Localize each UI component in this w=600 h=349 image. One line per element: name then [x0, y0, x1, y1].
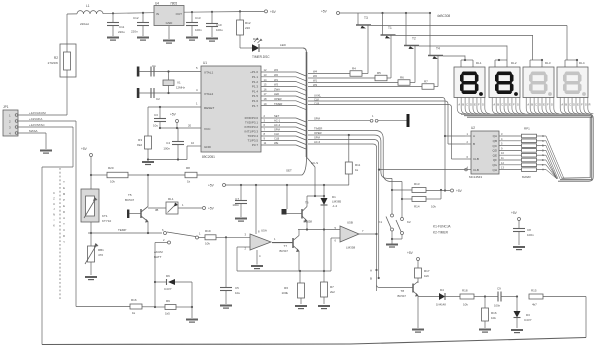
svg-text:R: R — [63, 210, 65, 214]
svg-text:+5V: +5V — [270, 10, 277, 14]
svg-text:A: A — [493, 102, 495, 106]
svg-text:DL3: DL3 — [545, 61, 551, 65]
svg-text:R6: R6 — [284, 286, 288, 290]
svg-text:JP1: JP1 — [3, 105, 9, 109]
svg-text:1k6: 1k6 — [424, 274, 429, 278]
svg-text:D4: D4 — [440, 288, 444, 292]
svg-text:W4: W4 — [274, 68, 279, 72]
svg-text:8k2: 8k2 — [137, 143, 142, 147]
svg-text:+5V: +5V — [170, 113, 177, 117]
svg-text:10k: 10k — [110, 180, 115, 184]
svg-text:AC-1: AC-1 — [274, 119, 281, 123]
svg-text:+5V: +5V — [321, 10, 328, 14]
svg-text:D: D — [505, 102, 507, 106]
svg-text:T: T — [63, 222, 65, 226]
svg-text:DL2: DL2 — [511, 61, 517, 65]
svg-text:G: G — [551, 102, 553, 106]
svg-text:D6: D6 — [166, 274, 170, 278]
svg-text:KT1: KT1 — [102, 214, 108, 218]
svg-text:C10: C10 — [216, 23, 222, 27]
svg-text:100u: 100u — [216, 28, 223, 32]
svg-text:RXD/P3.0: RXD/P3.0 — [245, 116, 259, 120]
svg-text:T1: T1 — [388, 26, 392, 30]
svg-text:R7: R7 — [424, 80, 428, 84]
svg-text:G: G — [482, 102, 484, 106]
svg-text:14: 14 — [264, 78, 267, 82]
svg-text:R14: R14 — [414, 205, 420, 209]
svg-text:220uH: 220uH — [80, 22, 89, 26]
svg-text:DL1: DL1 — [476, 61, 482, 65]
svg-text:A: A — [473, 134, 475, 138]
svg-text:A: A — [458, 102, 460, 106]
svg-text:RP1: RP1 — [524, 127, 530, 131]
svg-text:SPM: SPM — [314, 117, 321, 121]
svg-text:VCC: VCC — [204, 127, 211, 131]
svg-text:K1-FUNCJA: K1-FUNCJA — [433, 225, 451, 229]
svg-text:T1/P3.5: T1/P3.5 — [247, 139, 258, 143]
svg-text:W2: W2 — [274, 73, 279, 77]
svg-text:XTAL1: XTAL1 — [204, 71, 214, 75]
svg-text:B: B — [497, 102, 499, 106]
svg-text:D3: D3 — [526, 313, 530, 317]
svg-text:1k: 1k — [187, 180, 191, 184]
svg-text:D1: D1 — [332, 195, 336, 199]
svg-text:U2: U2 — [471, 126, 475, 130]
svg-text:ZWA: ZWA — [274, 87, 280, 91]
svg-text:T4: T4 — [436, 47, 440, 51]
svg-text:100k: 100k — [281, 291, 288, 295]
svg-text:C11: C11 — [119, 25, 125, 29]
svg-text:LED: LED — [274, 92, 279, 96]
svg-text:12MHz: 12MHz — [176, 86, 185, 90]
svg-text:270/2W: 270/2W — [48, 61, 59, 65]
svg-text:T2: T2 — [412, 37, 416, 41]
svg-text:R4: R4 — [352, 67, 356, 71]
svg-text:CLB: CLB — [473, 168, 479, 172]
svg-text:R15: R15 — [531, 289, 537, 293]
svg-text:B: B — [462, 102, 464, 106]
svg-text:K2: K2 — [407, 220, 411, 224]
svg-text:LM358: LM358 — [346, 246, 356, 250]
svg-text:100n: 100n — [232, 203, 239, 207]
svg-text:+12V/STAC: +12V/STAC — [29, 123, 46, 127]
svg-text:RB1: RB1 — [98, 248, 104, 252]
svg-text:R17: R17 — [424, 269, 430, 273]
svg-text:W3: W3 — [274, 83, 279, 87]
svg-text:3B: 3B — [155, 208, 158, 212]
svg-text:R20: R20 — [108, 166, 114, 170]
svg-text:+5V: +5V — [81, 147, 88, 151]
svg-text:K1: K1 — [378, 220, 382, 224]
svg-text:+5V: +5V — [208, 207, 215, 211]
svg-text:R3: R3 — [138, 138, 142, 142]
svg-text:L1: L1 — [86, 4, 90, 8]
svg-text:D2: D2 — [253, 37, 257, 41]
svg-text:A: A — [370, 269, 372, 273]
svg-text:15: 15 — [264, 83, 267, 87]
svg-text:E: E — [63, 186, 65, 190]
svg-text:OPER: OPER — [314, 131, 322, 135]
svg-text:R7: R7 — [330, 285, 334, 289]
svg-text:19: 19 — [264, 102, 267, 106]
svg-text:K2-TIMER: K2-TIMER — [433, 231, 449, 235]
svg-text:CLB: CLB — [473, 157, 479, 161]
svg-text:1N4148: 1N4148 — [436, 303, 446, 307]
svg-text:C: C — [569, 102, 571, 106]
svg-text:10u: 10u — [153, 124, 158, 128]
svg-text:G: G — [517, 102, 519, 106]
svg-text:TIMER: TIMER — [274, 102, 282, 106]
svg-text:R2: R2 — [54, 56, 58, 60]
svg-text:B: B — [531, 102, 533, 106]
svg-text:T: T — [63, 180, 65, 184]
svg-text:R12: R12 — [245, 21, 251, 25]
svg-text:W1: W1 — [313, 79, 318, 83]
svg-text:IN: IN — [156, 12, 159, 16]
svg-text:R6: R6 — [400, 76, 404, 80]
svg-text:+5V: +5V — [407, 251, 414, 255]
svg-text:-1.2: -1.2 — [332, 204, 338, 208]
svg-text:TIMER: TIMER — [314, 127, 322, 131]
svg-text:TEMP: TEMP — [118, 228, 126, 232]
svg-text:R: R — [63, 234, 65, 238]
svg-text:H: H — [542, 168, 544, 172]
svg-text:13: 13 — [264, 73, 267, 77]
svg-text:E: E — [542, 158, 544, 162]
svg-text:100n: 100n — [195, 28, 202, 32]
svg-text:SET: SET — [274, 114, 280, 118]
svg-text:D: D — [542, 148, 544, 152]
svg-text:R16: R16 — [491, 311, 497, 315]
svg-text:4xBC308: 4xBC308 — [437, 14, 450, 18]
svg-text:QH: QH — [493, 168, 498, 172]
svg-text:OUT: OUT — [176, 12, 183, 16]
svg-text:C4V7: C4V7 — [164, 287, 172, 291]
svg-text:BC547: BC547 — [125, 198, 135, 202]
svg-text:+5V: +5V — [208, 184, 215, 188]
svg-text:GND: GND — [166, 21, 174, 25]
svg-text:A: A — [561, 102, 563, 106]
svg-text:U5B: U5B — [347, 221, 353, 225]
svg-text:1k5: 1k5 — [165, 312, 170, 316]
svg-text:C2: C2 — [156, 97, 160, 101]
svg-text:T7: T7 — [283, 244, 287, 248]
svg-text:C8: C8 — [527, 228, 531, 232]
svg-text:CLK: CLK — [274, 132, 279, 136]
svg-text:LM385: LM385 — [332, 200, 342, 204]
svg-text:R: R — [589, 102, 591, 106]
svg-text:N: N — [53, 213, 55, 217]
svg-text:17: 17 — [264, 92, 267, 96]
svg-text:RL1: RL1 — [168, 197, 174, 201]
svg-text:U: U — [53, 202, 55, 206]
svg-text:WE: WE — [274, 141, 279, 145]
svg-text:U1: U1 — [203, 61, 207, 65]
svg-text:2k2: 2k2 — [330, 290, 335, 294]
svg-text:W2: W2 — [313, 74, 318, 78]
svg-text:R8: R8 — [186, 166, 190, 170]
svg-text:C9: C9 — [497, 287, 501, 291]
svg-text:U5A: U5A — [261, 229, 267, 233]
svg-text:QG: QG — [492, 163, 497, 167]
svg-text:10u: 10u — [235, 291, 240, 295]
svg-text:+5V: +5V — [456, 189, 463, 193]
svg-text:AC-6: AC-6 — [314, 140, 321, 144]
svg-text:C: C — [542, 134, 544, 138]
svg-text:XTAL2: XTAL2 — [204, 92, 214, 96]
svg-text:220n: 220n — [131, 30, 138, 34]
svg-text:CLB: CLB — [274, 137, 279, 141]
svg-text:R18: R18 — [462, 289, 468, 293]
svg-text:+P1.0: +P1.0 — [250, 70, 258, 74]
svg-text:C13: C13 — [195, 16, 201, 20]
svg-text:K: K — [53, 223, 55, 227]
svg-text:C7: C7 — [235, 197, 239, 201]
svg-text:QA: QA — [493, 134, 497, 138]
svg-text:12: 12 — [264, 68, 267, 72]
svg-text:100n: 100n — [527, 233, 534, 237]
svg-text:MC14543: MC14543 — [469, 175, 482, 179]
svg-text:T8: T8 — [400, 289, 404, 293]
svg-text:QB: QB — [493, 139, 497, 143]
svg-text:KTY10: KTY10 — [102, 219, 112, 223]
svg-text:BC547: BC547 — [279, 249, 288, 253]
svg-text:T0/P3.4: T0/P3.4 — [247, 134, 258, 138]
svg-text:P1.6: P1.6 — [252, 99, 259, 103]
svg-text:UXXL: UXXL — [314, 94, 322, 98]
svg-text:T5: T5 — [128, 193, 132, 197]
svg-text:P1.5: P1.5 — [252, 94, 259, 98]
svg-text:C: C — [466, 102, 468, 106]
svg-text:C1: C1 — [152, 64, 156, 68]
svg-text:10k: 10k — [491, 316, 496, 320]
svg-text:CLB: CLB — [314, 102, 319, 106]
svg-text:RESET: RESET — [204, 106, 214, 110]
svg-text:C3: C3 — [154, 113, 158, 117]
svg-text:P1.4: P1.4 — [252, 89, 259, 93]
svg-text:10k: 10k — [431, 205, 436, 209]
svg-text:C4V7: C4V7 — [524, 318, 532, 322]
svg-text:100n: 100n — [163, 147, 170, 151]
svg-text:AC-S: AC-S — [311, 161, 318, 165]
svg-text:SET: SET — [286, 169, 292, 173]
svg-text:B: B — [565, 102, 567, 106]
svg-text:P1.7: P1.7 — [252, 104, 259, 108]
svg-text:DL4: DL4 — [579, 61, 585, 65]
svg-text:7805: 7805 — [170, 2, 177, 6]
svg-text:Y: Y — [63, 240, 65, 244]
svg-text:SPM: SPM — [274, 128, 281, 132]
svg-text:B: B — [473, 142, 475, 146]
svg-text:D: D — [470, 102, 472, 106]
svg-text:R9: R9 — [166, 299, 170, 303]
svg-text:89C2051: 89C2051 — [202, 155, 215, 159]
svg-text:INT1/P3.3: INT1/P3.3 — [244, 130, 258, 134]
svg-text:P: P — [63, 198, 65, 202]
svg-text:E: E — [474, 102, 476, 106]
svg-text:18: 18 — [264, 97, 267, 101]
svg-text:E: E — [63, 204, 65, 208]
svg-text:AC-2: AC-2 — [274, 123, 281, 127]
svg-text:C4: C4 — [166, 141, 170, 145]
svg-text:AKUM: AKUM — [154, 250, 163, 254]
svg-text:BATT: BATT — [154, 255, 162, 259]
svg-text:10k: 10k — [205, 242, 210, 246]
svg-text:220: 220 — [245, 26, 250, 30]
svg-text:W4: W4 — [313, 70, 318, 74]
svg-text:MASA: MASA — [29, 129, 38, 133]
svg-text:G: G — [585, 102, 587, 106]
svg-text:16: 16 — [264, 87, 267, 91]
svg-text:C5: C5 — [235, 286, 239, 290]
svg-text:R19: R19 — [205, 229, 211, 233]
svg-text:E: E — [509, 102, 511, 106]
svg-text:4k7: 4k7 — [532, 303, 537, 307]
svg-text:P3.7: P3.7 — [252, 143, 259, 147]
svg-text:1k: 1k — [132, 311, 136, 315]
svg-text:P1.3: P1.3 — [252, 85, 259, 89]
svg-text:B: B — [370, 277, 372, 281]
svg-text:C: C — [501, 102, 503, 106]
svg-text:+CZUJKA: +CZUJKA — [29, 117, 42, 121]
svg-text:Z: Z — [53, 196, 55, 200]
svg-text:A: A — [63, 216, 65, 220]
svg-text:B: B — [542, 144, 544, 148]
svg-text:10: 10 — [191, 141, 195, 145]
svg-text:G: G — [542, 153, 544, 157]
svg-text:TIMER.DSC: TIMER.DSC — [252, 55, 270, 59]
svg-text:TXD/P3.1: TXD/P3.1 — [245, 121, 258, 125]
svg-text:BC547: BC547 — [397, 294, 406, 298]
svg-text:OPER: OPER — [274, 97, 282, 101]
svg-text:LED: LED — [280, 43, 287, 47]
svg-text:W1: W1 — [274, 78, 279, 82]
svg-text:E: E — [577, 102, 579, 106]
svg-text:P1.2: P1.2 — [252, 80, 259, 84]
svg-text:P1.1: P1.1 — [252, 75, 259, 79]
svg-text:R13: R13 — [414, 182, 420, 186]
svg-text:SPM: SPM — [314, 136, 321, 140]
svg-text:D: D — [573, 102, 575, 106]
svg-text:R16: R16 — [131, 298, 137, 302]
svg-text:BC558: BC558 — [303, 220, 312, 224]
svg-text:470: 470 — [98, 253, 103, 257]
svg-text:QF: QF — [493, 158, 497, 162]
svg-text:INT0/P3.2: INT0/P3.2 — [244, 125, 258, 129]
svg-text:A: A — [527, 102, 529, 106]
svg-text:QE: QE — [493, 153, 497, 157]
svg-text:20: 20 — [188, 124, 192, 128]
svg-text:+12V/AKUM: +12V/AKUM — [29, 111, 46, 115]
svg-text:D: D — [539, 102, 541, 106]
svg-text:C: C — [535, 102, 537, 106]
svg-text:U4: U4 — [155, 2, 159, 6]
svg-text:R5: R5 — [377, 71, 381, 75]
svg-text:1k: 1k — [355, 168, 359, 172]
svg-text:X1: X1 — [177, 81, 181, 85]
svg-text:A: A — [542, 139, 544, 143]
svg-text:T3: T3 — [364, 16, 368, 20]
svg-text:GND: GND — [204, 145, 212, 149]
svg-text:8x82R: 8x82R — [522, 175, 532, 179]
svg-text:C: C — [53, 191, 55, 195]
svg-text:C12: C12 — [133, 16, 139, 20]
svg-text:+5V: +5V — [511, 211, 518, 215]
svg-text:10k: 10k — [463, 303, 468, 307]
svg-text:100n: 100n — [494, 304, 501, 308]
svg-text:E: E — [543, 102, 545, 106]
svg-text:220u: 220u — [118, 30, 125, 34]
svg-text:R11: R11 — [355, 163, 361, 167]
svg-text:U: U — [63, 228, 65, 232]
